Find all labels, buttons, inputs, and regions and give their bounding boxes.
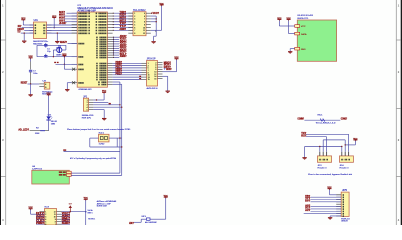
svg-text:TX?: TX? <box>17 30 21 33</box>
svg-text:Header 3: Header 3 <box>340 167 350 170</box>
power VCC P1 <box>21 18 26 21</box>
svg-text:100n: 100n <box>33 73 37 75</box>
pad RF-RX1 pin1 <box>295 25 306 29</box>
ground G1 <box>22 41 26 43</box>
ground G10 <box>302 158 306 160</box>
node RX label <box>301 135 307 137</box>
wire RX gnd <box>290 49 295 52</box>
wire JP1 pin3 <box>93 104 120 105</box>
node SPI labels to IC2 <box>59 11 77 25</box>
caption serial jumper note <box>67 128 131 131</box>
svg-text:Header 3: Header 3 <box>318 167 328 170</box>
node MISO label <box>164 62 172 64</box>
wire comm run <box>304 119 340 121</box>
node GND2 mark <box>63 149 66 150</box>
svg-text:INT1?: INT1? <box>120 20 127 22</box>
label JP4 <box>340 165 350 170</box>
svg-text:SJ-PAD: SJ-PAD <box>99 143 105 146</box>
svg-text:AIN0?: AIN0? <box>120 28 127 31</box>
svg-text:6: 6 <box>45 224 46 225</box>
svg-text:COMM?: COMM? <box>298 118 305 121</box>
wire LED to resistor <box>30 120 49 131</box>
wire P4 to LED <box>48 96 50 117</box>
caption programming note <box>70 157 117 160</box>
svg-text:4k7-0625W: 4k7-0625W <box>145 222 157 224</box>
ground G3 <box>65 90 69 92</box>
svg-text:SHD?: SHD? <box>62 223 71 225</box>
svg-text:VCC?: VCC? <box>153 12 160 15</box>
wire gnd link <box>305 146 343 158</box>
label R2 value <box>35 133 40 135</box>
wire T1IN <box>22 27 34 29</box>
power VCC P12 <box>353 138 358 141</box>
svg-text:7: 7 <box>144 19 145 21</box>
ground G8 <box>102 119 106 121</box>
label JP2 value <box>147 87 159 90</box>
module RF-RX1 <box>297 15 336 61</box>
wire RESET to gnd <box>30 84 32 95</box>
node COM2 label <box>341 118 348 121</box>
node RESET label <box>21 81 28 84</box>
pad RF-TX1 vcc <box>59 174 71 176</box>
wire SJ1 loop <box>90 138 123 148</box>
svg-text:PB2?: PB2? <box>116 73 123 75</box>
wire IC2 xtal down left <box>113 82 120 173</box>
power VCC P9 arrow <box>69 204 73 212</box>
svg-text:15: 15 <box>148 79 150 81</box>
wire IC3 left nets <box>36 213 45 225</box>
svg-text:COM2?: COM2? <box>341 118 348 121</box>
svg-text:7: 7 <box>134 30 135 32</box>
node labels bus C <box>116 62 142 79</box>
node RESET label right <box>60 41 67 44</box>
node RST label <box>164 67 172 69</box>
node COMM label <box>298 118 305 121</box>
svg-text:RS EN 1: RS EN 1 <box>88 219 96 221</box>
wire net long <box>64 150 120 152</box>
wire green module pin2 run <box>71 174 122 176</box>
svg-text:LED1: LED1 <box>48 114 52 116</box>
wire RESET net <box>28 83 40 84</box>
node AD_LED label <box>18 128 29 131</box>
wire IC2 xtal down right <box>113 84 122 175</box>
power VCC P14 <box>29 56 34 59</box>
wire IC3 right nets <box>62 213 71 225</box>
svg-text:8: 8 <box>134 33 135 35</box>
wire IC3 pin12 net <box>62 211 87 213</box>
svg-text:GND: GND <box>301 49 306 51</box>
svg-text:TXD?: TXD? <box>120 12 127 14</box>
svg-text:RXD?: RXD? <box>120 15 127 17</box>
wire bus IC2 to SV1 <box>113 13 133 31</box>
ground G11 <box>328 218 332 220</box>
capacitor C1 <box>44 43 47 48</box>
resistor R1 <box>147 218 151 220</box>
svg-text:Pins to be connected, bypass R: Pins to be connected, bypass Radio-Link <box>308 173 353 176</box>
connector JP2 ISP <box>142 59 163 86</box>
svg-text:BURN 12M: BURN 12M <box>97 206 107 208</box>
caption headers note <box>308 173 353 176</box>
module RF-TX1 <box>32 166 70 184</box>
wire crystal right drop <box>62 45 66 50</box>
label JP5 value <box>341 218 350 222</box>
wire JP5 gnd <box>330 216 341 217</box>
node R1OUT label <box>17 28 24 31</box>
capacitor C7 <box>29 70 32 72</box>
node T1IN label <box>18 25 22 28</box>
svg-text:D5?: D5? <box>305 201 311 203</box>
label LED1 value <box>51 121 57 125</box>
wire AREF <box>56 64 78 65</box>
label JP1 value <box>82 114 94 120</box>
label U1 value <box>33 40 49 45</box>
capacitor C2 <box>44 54 47 58</box>
svg-text:MOSI?: MOSI? <box>166 69 172 71</box>
wire P6 to JP2 <box>163 60 177 72</box>
label node text2 <box>88 219 96 221</box>
pad RF-RX1 pin3 <box>295 47 306 51</box>
wire crystal loop left <box>36 45 38 56</box>
wire TX run <box>306 134 349 152</box>
wire P7 to JP1 pin1 <box>93 93 104 100</box>
power VCC P8 <box>29 207 34 210</box>
op-amp U3 reset supervisor <box>39 80 50 89</box>
svg-text:9: 9 <box>144 24 145 26</box>
ground G2 <box>55 42 62 50</box>
caption bottom block <box>97 200 117 208</box>
wire JP1 pin2 <box>93 102 110 104</box>
wire mid link <box>323 140 345 152</box>
power VCC P10 <box>84 198 89 201</box>
svg-text:5: 5 <box>87 109 88 111</box>
svg-text:JP2-ISP: JP2-ISP <box>147 59 156 61</box>
wire XTAL1 <box>64 64 71 69</box>
node HX label <box>129 222 134 225</box>
svg-text:16: 16 <box>154 78 156 80</box>
power VCC P15 <box>277 18 282 21</box>
svg-text:Q1: Q1 <box>58 46 61 48</box>
node labels bus A <box>120 12 127 31</box>
svg-text:6: 6 <box>144 16 145 18</box>
svg-text:SV1-CON12: SV1-CON12 <box>133 10 146 12</box>
svg-text:LB-SCK?: LB-SCK? <box>59 22 67 25</box>
svg-text:330R: 330R <box>35 133 40 135</box>
wire JP2 to gnd <box>163 76 168 91</box>
svg-text:HDR (5P): HDR (5P) <box>82 117 91 119</box>
svg-text:7: 7 <box>55 224 56 225</box>
jumper SJ1 <box>99 133 110 142</box>
label SJ1 value <box>99 143 105 146</box>
wire bus IC2 to JP2 <box>113 63 142 79</box>
svg-text:ATV = Opt-loading & programmin: ATV = Opt-loading & programming only, us… <box>70 157 117 160</box>
connector JP5 <box>336 190 349 217</box>
svg-text:3: 3 <box>134 19 135 21</box>
wire crystal loop bottom AVCC <box>37 56 77 58</box>
pad RF-TX1 data <box>59 171 71 173</box>
svg-text:RESET: RESET <box>21 81 28 84</box>
pad RF-RX1 pin2 <box>295 32 307 36</box>
power VCC P3 <box>62 54 67 57</box>
wire crystal left leg <box>53 50 57 57</box>
wire P11 drop <box>150 198 166 219</box>
svg-text:10: 10 <box>143 27 145 29</box>
power VCC P5 <box>160 3 165 6</box>
op-amp IC3 <box>40 207 62 226</box>
power VCC P16 <box>287 18 292 21</box>
wire XTAL2 <box>67 83 71 90</box>
op-amp U1 8-pin interface IC <box>30 19 52 38</box>
svg-text:A2?: A2? <box>305 209 311 212</box>
wire P3 drop <box>64 56 65 64</box>
svg-text:Place bottom jumper link if no: Place bottom jumper link if not to use s… <box>67 128 131 131</box>
connector JP3 header <box>318 152 332 162</box>
connector JP1 serial <box>83 97 93 112</box>
wire SV1 rows to gnd <box>151 16 157 41</box>
svg-text:RESET?: RESET? <box>60 41 67 44</box>
wire U1 pin5 to IC2 with ground branch <box>47 32 78 41</box>
power VCC P7 <box>102 91 107 94</box>
svg-text:11: 11 <box>143 30 145 32</box>
label NC1 <box>318 115 324 117</box>
pin mark XTAL1 <box>72 68 75 71</box>
wire P5 to SV1 <box>151 6 162 30</box>
wire reset cap lower <box>30 72 32 84</box>
svg-text:1: 1 <box>134 13 135 15</box>
node 5V marks <box>54 62 58 63</box>
label net class 1 <box>155 31 157 33</box>
crystal Q1 <box>57 46 62 52</box>
wire U1 pin7 to IC2 <box>47 27 78 29</box>
wire R1 left <box>134 219 147 222</box>
power VCC P4 <box>47 93 52 96</box>
power VCC P13 <box>327 187 332 190</box>
label NC1 value <box>316 121 338 124</box>
svg-text:RWS-371: RWS-371 <box>297 18 309 20</box>
svg-text:12: 12 <box>143 33 145 35</box>
wire T2IN with ground branch <box>21 32 34 41</box>
svg-text:SERIAL-PRG: SERIAL-PRG <box>82 114 94 117</box>
svg-text:5MM: 5MM <box>51 123 55 125</box>
wire crystal loop top <box>37 44 66 46</box>
wire SJ1 right <box>109 137 122 138</box>
ground G9 <box>288 52 292 54</box>
svg-text:DATA: DATA <box>301 33 307 36</box>
wire reset cap upper <box>30 59 32 70</box>
ground G5 <box>28 95 32 97</box>
op-amp IC2 microcontroller ATMEGA8 <box>77 5 113 87</box>
label C7 value <box>33 70 37 75</box>
svg-text:MEGA8-P ATMEGA8 AVR-MCU: MEGA8-P ATMEGA8 AVR-MCU <box>78 7 114 10</box>
node TX label <box>301 133 307 135</box>
resistor R2 <box>40 130 45 132</box>
connector SV1 <box>128 10 151 36</box>
svg-text:AVR-ISP-6: AVR-ISP-6 <box>147 87 159 90</box>
wire green module pin1 run <box>71 172 120 174</box>
wire P12 to header <box>345 140 356 152</box>
svg-text:VCC: VCC <box>301 26 306 28</box>
svg-text:6: 6 <box>134 27 135 29</box>
wire RX data <box>289 21 295 34</box>
wire U1 pin6 to IC2 <box>47 29 78 31</box>
wire bus IC2 port C <box>113 37 120 58</box>
svg-text:8: 8 <box>144 22 145 24</box>
svg-text:C-RFTX12: C-RFTX12 <box>32 169 43 171</box>
label R2 <box>36 127 40 129</box>
wire P2 drop <box>54 18 55 28</box>
svg-text:T0?: T0? <box>120 23 127 25</box>
label U3 value <box>42 91 53 95</box>
connector JP4 header <box>340 152 354 162</box>
label C1 value <box>47 49 51 54</box>
label Q1 value <box>56 55 62 57</box>
label node 5V text <box>88 209 94 214</box>
svg-text:2: 2 <box>134 16 135 18</box>
svg-text:5: 5 <box>144 13 145 15</box>
label LED1 <box>48 114 52 116</box>
wire RESET to IC2 <box>68 42 78 44</box>
wire RX vcc <box>279 21 294 26</box>
label JP3 <box>318 165 328 170</box>
LED LED1 <box>46 116 52 120</box>
ground G7 <box>166 91 170 93</box>
jumper NC1 <box>320 119 325 122</box>
wire RX run <box>306 137 327 152</box>
wire U1 pin8 to IC2 <box>47 24 78 26</box>
ground G6 <box>151 42 155 44</box>
power VCC P6 <box>174 57 179 60</box>
node VCC label SV1 <box>151 12 160 15</box>
node T2IN label <box>17 30 21 33</box>
wire SJ1 left <box>90 137 99 139</box>
wire P8 to IC3 <box>31 210 40 215</box>
power VCC P2 <box>52 16 57 19</box>
svg-text:T1?: T1? <box>120 26 127 28</box>
label R1 <box>142 216 148 218</box>
node SCK label <box>164 65 172 67</box>
svg-text:AGND?: AGND? <box>120 55 127 58</box>
wire JP1 pin4 <box>93 107 122 108</box>
svg-text:ATMEGA8-16P: ATMEGA8-16P <box>78 9 97 12</box>
label IC2 value below <box>79 88 92 91</box>
node MOSI label <box>164 69 172 71</box>
wire JP5 nets <box>304 196 342 214</box>
svg-text:4: 4 <box>134 22 135 24</box>
label R1 value <box>145 222 157 224</box>
wire R1OUT <box>24 29 33 31</box>
svg-text:NET1: NET1 <box>88 213 94 215</box>
svg-text:HX?: HX? <box>129 222 134 225</box>
svg-text:5: 5 <box>134 24 135 26</box>
svg-text:DEBUG: DEBUG <box>341 221 348 223</box>
IC2 pin stubs and pin names <box>72 13 113 86</box>
svg-text:PWR?: PWR? <box>36 223 44 225</box>
svg-text:INT0?: INT0? <box>120 18 127 20</box>
svg-text:AD_LED?: AD_LED? <box>18 128 29 131</box>
power VCC P11 <box>164 196 169 199</box>
wire P1 to U1 pin1 <box>23 21 33 25</box>
node labels bus B <box>120 35 127 58</box>
svg-text:16MHz: 16MHz <box>56 55 62 57</box>
svg-text:ATMEGA8-16PI: ATMEGA8-16PI <box>79 88 92 91</box>
pin mark XTAL2 <box>72 81 75 84</box>
wire P13 to JP5 <box>330 190 342 195</box>
wire P10 drop <box>85 200 87 225</box>
svg-text:Test-MCU-12: Test-MCU-12 <box>316 121 338 124</box>
wire JP1 pin5 to gnd <box>93 110 104 119</box>
